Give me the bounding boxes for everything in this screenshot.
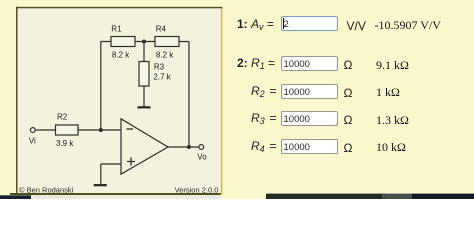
resistor R4: [155, 37, 179, 47]
op-amp U1: [121, 119, 168, 174]
wire right vertical to output: [188, 42, 190, 148]
wire plus input: [101, 163, 121, 165]
wire left feedback vertical: [100, 42, 102, 131]
input Av: [281, 16, 338, 31]
wire op-amp output: [168, 146, 199, 148]
node A junction dot: [99, 128, 103, 132]
form row 5: R4: [251, 140, 277, 153]
panel border top: [16, 7, 222, 9]
wire top rail mid segment: [135, 41, 155, 43]
resistor R2: [56, 125, 79, 135]
wire plus to ground: [100, 164, 102, 184]
bottom strip: grey segment: [31, 195, 220, 199]
resistor R1: [111, 37, 135, 47]
svg-text:Version 2.0.0: Version 2.0.0: [175, 186, 219, 195]
form row 4: R3: [251, 112, 277, 125]
output node junction dot: [187, 145, 191, 149]
ground bar under R3: [138, 106, 151, 108]
wire top rail right segment: [179, 41, 189, 43]
text caret: [283, 18, 284, 29]
bottom strip: dark navy right segment: [412, 194, 474, 199]
svg-text:Vi: Vi: [29, 137, 36, 146]
wire R3 top stem: [143, 42, 145, 62]
op-amp minus sign: [127, 128, 134, 130]
svg-text:8.2 k: 8.2 k: [112, 51, 130, 60]
bottom strip: mid grey-green segment: [382, 194, 412, 199]
op-amp plus sign: [127, 158, 135, 166]
bottom strip: navy block: [0, 195, 31, 199]
form row 2: R1: [237, 57, 275, 70]
svg-text:3.9 k: 3.9 k: [56, 139, 74, 148]
wire R2 to op-amp minus input: [78, 129, 121, 131]
svg-text:R2: R2: [57, 112, 68, 121]
form row 3: R2: [251, 85, 277, 98]
svg-text:Vo: Vo: [197, 153, 207, 162]
svg-text:R3: R3: [154, 63, 165, 72]
terminal Vo: [199, 145, 204, 150]
panel border left: [16, 7, 18, 195]
wire top rail left segment: [101, 41, 111, 43]
svg-text:2.7 k: 2.7 k: [153, 72, 171, 81]
ground at op-amp plus input: [94, 184, 107, 186]
panel background: [18, 8, 221, 193]
bottom strip: dark green segment: [266, 194, 385, 199]
wire Vi to R2: [35, 129, 55, 131]
terminal Vi: [30, 128, 35, 133]
panel border bottom: [10, 193, 221, 195]
svg-text:8.2 k: 8.2 k: [156, 51, 174, 60]
panel border right: [221, 7, 223, 195]
form row 1: Av: [237, 18, 274, 31]
resistor R3: [139, 62, 149, 87]
svg-text:R1: R1: [111, 25, 122, 34]
node B junction dot: [142, 40, 146, 44]
svg-text:© Ben Rodanski: © Ben Rodanski: [19, 186, 74, 195]
wire R3 bottom stem: [143, 86, 145, 107]
svg-text:R4: R4: [156, 25, 167, 34]
